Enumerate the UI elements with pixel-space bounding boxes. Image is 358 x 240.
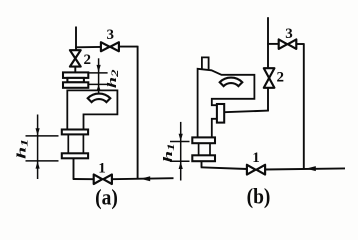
h1 (a) dimension arrowhead up	[36, 161, 40, 168]
svg-text:1: 1	[252, 150, 260, 166]
svg-text:3: 3	[285, 26, 293, 42]
wire: suction drop pipe (b)	[201, 161, 203, 167]
wire: top pipe of (b)	[267, 17, 269, 68]
wire: valve 2 (a) to flange stack	[74, 67, 76, 73]
svg-text:2: 2	[83, 52, 91, 68]
pump priming funnel stub (b)	[202, 57, 209, 69]
suction pipe between flanges (b)	[198, 143, 200, 155]
svg-text:(a): (a)	[95, 186, 118, 210]
h1 (b) dimension line	[180, 122, 182, 181]
h2 dimension arrowhead up	[97, 85, 101, 91]
inflow arrow on bottom line (a)	[140, 176, 150, 181]
svg-text:2: 2	[277, 70, 285, 86]
wire: discharge line from pump flange to riser (b)	[224, 111, 269, 113]
h2 dimension line with arrows	[98, 58, 100, 93]
svg-text:(b): (b)	[247, 184, 271, 208]
svg-text:1: 1	[98, 161, 106, 177]
pump body (b)	[198, 69, 255, 138]
inflow arrow on bottom line (b)	[306, 166, 316, 171]
valve 1 (a)	[94, 175, 112, 185]
pump impeller arc (a)	[88, 94, 111, 103]
h1 (b) lower reference line	[170, 160, 190, 162]
flange stack middle spacer (a)	[67, 78, 84, 82]
h1 (a) dimension line	[37, 115, 39, 180]
wire: right return line down (b)	[303, 43, 305, 169]
valve 3 (a)	[101, 42, 119, 51]
flange stack lower plate (a)	[63, 82, 88, 88]
wire: bottom line left of valve 1 (a)	[73, 178, 94, 180]
h2 lower reference line	[88, 83, 108, 85]
wire: valve 2 (b) down to discharge tee	[267, 88, 269, 111]
wire: branch from node to valve 3 (a)	[75, 46, 101, 48]
flange stack on pump top (a): upper plate	[63, 72, 88, 78]
wire: right return line down (a)	[137, 46, 139, 179]
h1 (b) dimension arrowhead down	[179, 134, 183, 141]
suction flange lower (a)	[62, 153, 88, 158]
h1 (a) dimension arrowhead down	[36, 128, 40, 135]
h1 (a) lower reference line	[26, 160, 59, 162]
h2 upper reference line	[88, 72, 107, 74]
wire: branch to valve 3 (b)	[267, 43, 279, 45]
suction flange upper (a)	[62, 130, 88, 135]
wire: bottom line right of valve 1 (a) with inflow arrow	[112, 178, 174, 179]
valve 3 (b)	[279, 39, 297, 49]
valve 2 (b)	[264, 68, 275, 88]
wire: top inlet pipe of (a)	[75, 27, 77, 51]
suction flange lower (b)	[192, 155, 215, 161]
wire: suction drop pipe (a)	[73, 158, 75, 179]
h1 (a) upper reference line	[26, 135, 59, 137]
pump impeller arc (b)	[220, 78, 243, 87]
wire: bottom line left of valve 1 (b)	[201, 167, 247, 169]
h2 dimension arrowhead down	[97, 65, 101, 72]
valve 2 (a)	[70, 50, 81, 66]
wire: bottom line right of valve 1 (b) with inflow arrow	[265, 168, 345, 169]
valve 1 (b)	[247, 165, 265, 175]
svg-text:3: 3	[107, 27, 115, 43]
h1 (b) upper reference line	[170, 141, 190, 143]
pump body (a)	[67, 90, 117, 129]
discharge flange plate (b)	[217, 104, 224, 123]
h1 (b) dimension arrowhead up	[179, 162, 183, 169]
wire: valve 3 (a) to right corner	[119, 46, 138, 48]
wire: valve 3 (b) to right corner	[296, 43, 304, 45]
suction flange upper (b)	[192, 137, 215, 143]
suction pipe between flanges (a)	[67, 134, 69, 153]
